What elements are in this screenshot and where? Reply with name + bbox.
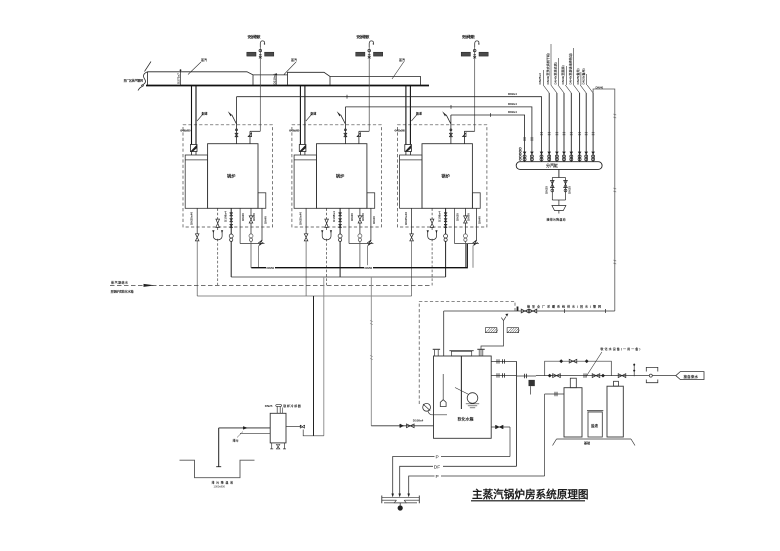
svg-text:蒸汽: 蒸汽 [399,57,405,62]
cooler outlet with valve [286,425,324,436]
float ball [455,388,479,408]
svg-text:P: P [436,455,439,461]
distributor vessel [516,162,602,170]
cooler inlet pipes [219,426,271,433]
level gauge tag left [485,328,497,333]
svg-text:DN25x3: DN25x3 [538,73,542,85]
header top profile [148,72,421,86]
svg-text:P: P [436,474,439,480]
blowdown collecting pipe [231,276,445,278]
tank top stub 2 [477,349,484,356]
svg-text:分汽缸: 分汽缸 [546,162,558,168]
svg-text:DN25: DN25 [545,186,549,194]
main pipe valve group right [584,373,626,377]
condensate return pipe (dashed) [110,284,432,287]
riser label DN32 laundry [545,44,551,85]
riser leader diagonals [543,85,593,93]
svg-text:蒸汽凝结水: 蒸汽凝结水 [111,279,129,284]
softener main pipe [536,375,676,377]
svg-text:至锅炉房软化水箱: 至锅炉房软化水箱 [111,288,134,293]
boiler blowdown drop (dark) [313,296,315,436]
tank inlet down pipe [443,311,445,356]
svg-text:DF: DF [434,464,440,470]
sampling drop (gray) [323,277,325,436]
svg-text:DN50: DN50 [267,266,275,270]
softener bypass pipe [545,359,612,375]
softened water supply drop [370,277,373,426]
softener vessel A [564,378,582,437]
riser union ticks [523,133,594,140]
riser label DN40 pool [568,48,574,85]
svg-text:接至全厂采暖系统供水(回水)管网: 接至全厂采暖系统供水(回水)管网 [527,304,601,309]
svg-text:DN25(备用): DN25(备用) [581,68,586,84]
float weight [440,374,446,407]
sample point [633,363,635,376]
svg-text:D89x4: D89x4 [508,102,517,106]
drain funnel [552,206,566,214]
svg-text:接排污降温池: 接排污降温池 [547,217,566,222]
steam pipe boiler3 D89x4 [451,113,525,162]
riser label DN40 laundry [553,58,559,85]
svg-text:排污降温池: 排污降温池 [212,479,234,484]
header leader label 3 [392,57,405,79]
riser label DN25x3 [538,70,543,85]
salt tank [587,411,603,437]
riser label DN32 kitchen [560,65,566,85]
water meter [646,367,658,382]
cooler inlet from top [281,408,283,414]
riser label DN25 spare1 [575,68,581,85]
level gauge tag right [507,328,518,333]
equipment base [553,439,636,446]
steam heater valve on tank [481,314,508,356]
svg-text:DN32(至厨房): DN32(至厨房) [560,65,565,84]
tank body [434,356,492,438]
svg-text:D89x4: D89x4 [508,110,517,114]
cooler top stub [276,404,282,413]
cooler bottom drain valve [276,445,279,449]
svg-text:DN25: DN25 [568,186,572,194]
riser label DN25 spare2 [581,68,587,85]
distributor left end marks [519,148,521,161]
svg-text:D273x7: D273x7 [177,73,181,84]
svg-text:蒸汽: 蒸汽 [201,57,207,62]
svg-text:接自来水: 接自来水 [684,374,699,379]
drain collector trough [382,496,420,511]
tap water flag label [676,372,704,380]
svg-text:软化水箱: 软化水箱 [458,416,474,422]
header leader label 1 [188,57,207,75]
pump drain line P1 [391,455,510,498]
tank dashed enclosure [419,301,515,404]
tank drain with valve [491,425,510,456]
svg-text:蒸汽: 蒸汽 [291,57,297,62]
svg-text:1000x800: 1000x800 [214,485,226,489]
main pipe valve group left [548,374,561,378]
drain line P2 [407,474,544,497]
distributor inlet/outlet valves [523,152,595,161]
distributor drain assembly [551,169,568,205]
tank inlet pipe with valve [371,424,433,428]
steam pipe boiler2 D89x4 [345,105,532,162]
distributor risers 4-10 [549,93,593,162]
svg-text:D219x6: D219x6 [272,73,276,84]
softener label leader [586,346,641,377]
svg-text:D108x4: D108x4 [413,418,424,422]
svg-text:DN25(备用): DN25(备用) [575,68,580,84]
svg-text:盐液: 盐液 [591,423,599,428]
svg-text:DN40(至洗衣房): DN40(至洗衣房) [553,62,558,84]
blowdown label [233,432,244,443]
heating pipe valves [517,307,537,313]
blowdown pit [180,460,255,478]
drain line DF [398,464,516,497]
svg-text:D89x4: D89x4 [508,92,517,96]
header bottom main line [146,85,429,87]
tank steam riser [516,361,518,466]
tank top stub 1 [433,349,440,356]
header leader label 2 [284,57,297,75]
svg-text:取样冷却器: 取样冷却器 [283,403,301,408]
svg-text:DN25: DN25 [265,404,273,408]
svg-text:基础: 基础 [583,440,590,445]
tank internal overflow pipe [460,356,462,409]
steam pipe boiler1 D89x4 [237,95,542,162]
tank side nozzle lower [491,373,516,377]
economizer drain collecting pipe [197,295,411,297]
svg-text:软化水设备(一用一备): 软化水设备(一用一备) [600,346,640,351]
level regulator pump [423,403,447,414]
softener vessel B [607,381,623,437]
svg-text:DN50: DN50 [365,266,373,270]
header size tick D273x7 [177,69,182,85]
softener drain pipe [545,392,564,476]
tank manhole [449,351,473,356]
header left break symbol [138,72,148,91]
svg-text:主蒸汽锅炉房系统原理图: 主蒸汽锅炉房系统原理图 [472,488,589,501]
heating pipe horizontal [444,309,615,313]
feedwater header (heavy) [251,244,467,270]
tank side nozzle upper [491,359,516,363]
DN40 heating supply pipe [593,89,616,311]
svg-text:至厂区蒸汽管网: 至厂区蒸汽管网 [124,78,144,83]
svg-text:DN32(至洗衣房烘干机): DN32(至洗衣房烘干机) [545,53,550,85]
svg-text:排污: 排污 [233,438,239,443]
pit drop pipe [216,428,221,467]
sampling cooler body [270,413,286,449]
svg-text:DN40(至游泳池换热站): DN40(至游泳池换热站) [568,53,573,85]
level instrument branch [517,374,537,395]
header reducer tick D219 [272,73,277,85]
